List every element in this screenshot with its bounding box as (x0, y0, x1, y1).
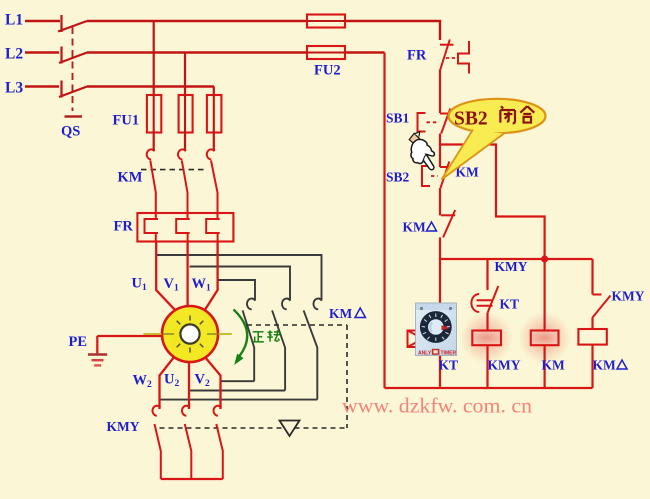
contact KM main pole 2 (178, 149, 187, 213)
svg-text:KMY: KMY (488, 358, 521, 373)
svg-text:KT: KT (500, 297, 520, 312)
switch QS pole L1 (58, 15, 87, 32)
pushbutton SB1 normally-closed (418, 109, 452, 134)
label KM-delta interlock (403, 220, 437, 235)
wire KM-delta coil to bottom (591, 345, 593, 388)
coil glow KM (519, 312, 571, 364)
motor hub ring (180, 324, 199, 343)
wire node bus (440, 258, 593, 260)
wire KMY contact to KM-delta coil (591, 318, 593, 330)
wire KT branch lower (439, 356, 441, 389)
wire KM self-hold branch (440, 145, 545, 260)
hand cursor (409, 132, 434, 170)
wire SB2 to KM-delta interlock (439, 188, 441, 215)
fuse FU2 lower (307, 46, 345, 59)
contact KM-delta pole 2 (272, 299, 290, 391)
svg-text:PE: PE (69, 334, 88, 350)
delta marker triangle (280, 421, 300, 437)
wire fuse1 to KM (153, 133, 155, 152)
contact KM-delta pole 1 (243, 299, 256, 382)
wire black delta contact 2 to U2 (190, 390, 285, 392)
linkage dashed KMY (160, 427, 348, 429)
linkage dashed vertical (346, 325, 348, 428)
svg-text:KMY: KMY (107, 419, 140, 434)
svg-text:ANLY: ANLY (418, 351, 432, 357)
wire SB1 to SB2 (439, 134, 441, 168)
wire FR to SB1 (439, 70, 441, 114)
timer KT photo (416, 303, 457, 357)
wire interlock to node (439, 237, 441, 259)
svg-text:FU2: FU2 (314, 63, 341, 79)
svg-text:SB1: SB1 (386, 111, 410, 126)
svg-text:KM: KM (542, 358, 566, 373)
label KM-delta coil (593, 358, 628, 373)
wire bottom return (385, 387, 593, 389)
relay FR heater block (137, 213, 233, 242)
coil KT (408, 331, 439, 348)
svg-text:FU1: FU1 (113, 113, 140, 129)
coil KM (531, 331, 559, 346)
motor shaft axis lines (144, 333, 232, 335)
char bi (close) (500, 106, 515, 123)
wire fuse3 to KM (213, 133, 215, 152)
motor M body (162, 306, 218, 362)
FR heater element 2 (176, 213, 190, 242)
svg-text:SB2: SB2 (454, 109, 488, 130)
coil glow KMY (461, 312, 513, 364)
wire L2 (25, 51, 59, 53)
wire black U1 to delta contact 3 (157, 255, 322, 300)
svg-text:SB2: SB2 (386, 170, 410, 185)
fuse FU1 pole 3 (207, 95, 222, 133)
svg-text:L3: L3 (5, 80, 23, 97)
label KM-delta contacts (329, 306, 366, 321)
svg-text:L2: L2 (5, 46, 23, 63)
wire L3 (25, 85, 59, 87)
rotation arrow green (234, 310, 248, 357)
contact KT delayed normally-closed (471, 286, 498, 313)
wire right rail (383, 53, 385, 389)
wire L2 bus (87, 51, 385, 53)
wire black delta contact 3 to W2 (160, 399, 318, 401)
wire L3 bus (87, 85, 214, 87)
fuse FU1 pole 2 (179, 95, 193, 133)
contact KM-delta pole 3 (304, 299, 322, 400)
ground PE wire (97, 335, 162, 337)
wire KT contact to KMY coil (486, 313, 488, 331)
wire KMY coil to bottom (486, 345, 488, 388)
wire L1 (25, 20, 60, 22)
fuse FU2 upper (307, 15, 345, 28)
linkage dashed KM-delta (247, 324, 347, 326)
wire FR to motor W1 (205, 242, 218, 311)
linkage dashed KM main (141, 169, 205, 171)
contact KMY auxiliary normally-open (593, 295, 611, 318)
wire black W1 to delta contact 1 (219, 280, 256, 300)
coil KMY (472, 331, 501, 346)
char he (together) (520, 106, 534, 122)
svg-text:KM: KM (329, 306, 353, 321)
wire FR to motor V1 (186, 242, 188, 308)
wire L1 bus (87, 21, 440, 40)
contact FR normally-closed (440, 40, 469, 74)
svg-text:www. dzkfw. com. cn: www. dzkfw. com. cn (342, 394, 533, 418)
wire motor W2 down (160, 357, 175, 410)
switch QS pole L2 (59, 47, 87, 64)
coil KM-delta (578, 329, 606, 345)
svg-text:FR: FR (407, 48, 427, 64)
svg-text:KMY: KMY (612, 289, 645, 304)
contact KMY pole 2 (182, 406, 191, 479)
wire motor U2 down (188, 362, 190, 410)
motor hub hole (185, 329, 194, 338)
wire KM coil to bottom (543, 345, 545, 388)
svg-text:KT: KT (439, 358, 459, 373)
contact KM-delta interlock normally-closed (441, 210, 455, 237)
wire FR to motor U1 (156, 242, 176, 311)
svg-text:QS: QS (61, 124, 80, 140)
svg-text:KM: KM (118, 170, 143, 186)
wire KMY star bar (161, 478, 223, 480)
ground symbol (88, 336, 107, 365)
contact KMY pole 1 (153, 406, 161, 479)
wire motor V2 down (205, 357, 221, 410)
junction dot (541, 255, 548, 262)
pushbutton SB2 normally-open (422, 162, 449, 189)
switch QS pole L3 (59, 81, 87, 98)
wire black delta contact 1 to V2 (221, 380, 255, 382)
switch QS linkage (72, 27, 74, 111)
motor tick marks (177, 316, 204, 353)
fuse FU1 pole 1 (147, 95, 161, 133)
FR heater element 1 (145, 213, 159, 242)
contact KMY pole 3 (214, 406, 223, 479)
wire phase A drop (153, 21, 155, 95)
contact KM main pole 1 (147, 149, 156, 213)
wire black V1 to delta contact 2 (190, 267, 291, 301)
svg-text:KM: KM (593, 358, 617, 373)
wire KM-delta coil branch (591, 259, 593, 295)
wire KM coil branch (543, 259, 545, 331)
wire KT branch upper (439, 259, 441, 303)
wire phase C drop (213, 87, 215, 96)
wire fuse2 to KM (184, 133, 186, 152)
wire KMY coil branch (486, 259, 488, 290)
speech bubble SB2 closed (442, 99, 546, 180)
contact KM main pole 3 (207, 149, 218, 213)
svg-text:TIMER: TIMER (441, 351, 457, 357)
rotation label zheng-zhuan (252, 330, 280, 342)
wire phase B drop (184, 53, 186, 96)
svg-text:KMY: KMY (495, 259, 528, 274)
svg-text:KM: KM (403, 220, 427, 235)
svg-text:L1: L1 (5, 12, 23, 29)
FR heater element 3 (206, 213, 220, 242)
svg-text:FR: FR (114, 219, 134, 235)
